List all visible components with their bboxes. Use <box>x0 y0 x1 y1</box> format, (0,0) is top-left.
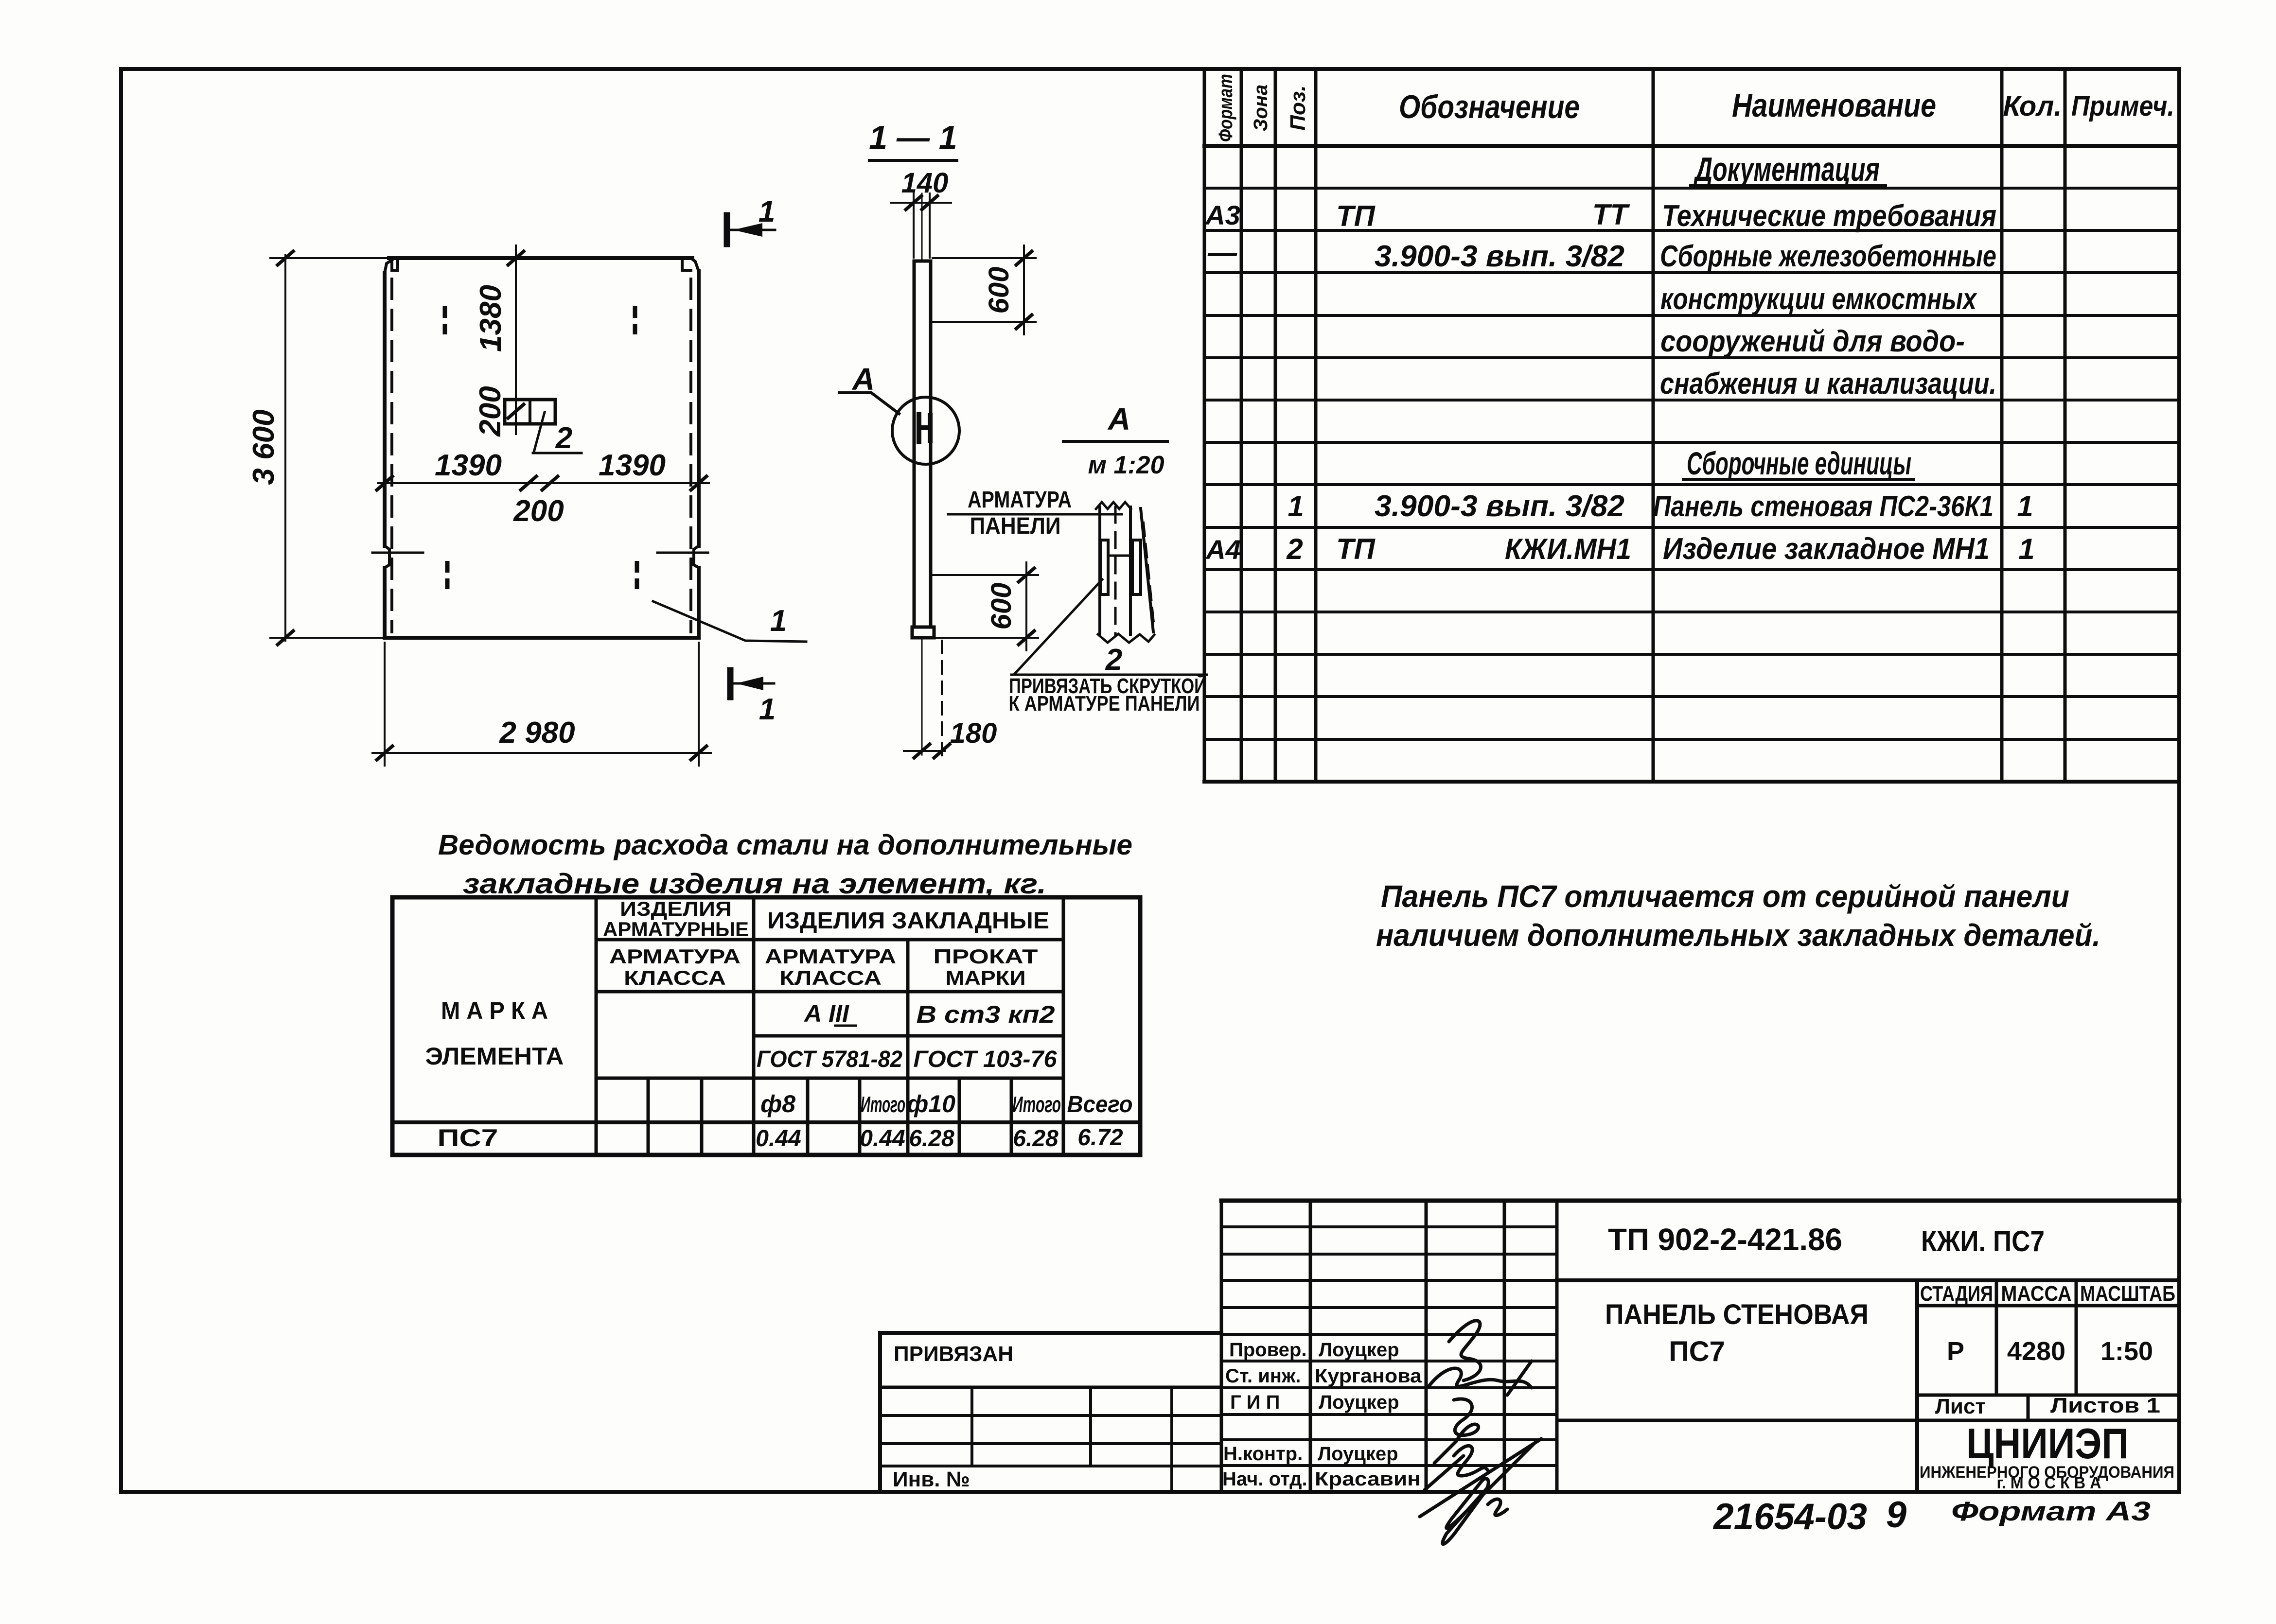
svg-text:ПАНЕЛИ: ПАНЕЛИ <box>970 513 1061 539</box>
svg-text:6.72: 6.72 <box>1077 1125 1123 1151</box>
dim 140 lines <box>891 193 951 258</box>
signature scribble 2 <box>1429 1361 1532 1395</box>
svg-text:ИЗДЕЛИЯ: ИЗДЕЛИЯ <box>620 897 732 920</box>
title block top border <box>1221 1199 2179 1203</box>
svg-text:ГОСТ 5781-82: ГОСТ 5781-82 <box>757 1047 902 1072</box>
underline Sborochnye edinicy <box>1683 478 1914 481</box>
dim 600 top lines <box>933 245 1036 334</box>
svg-text:АРМАТУРА: АРМАТУРА <box>968 487 1072 513</box>
svg-text:21654-03: 21654-03 <box>1712 1496 1867 1537</box>
svg-text:Лоуцкер: Лоуцкер <box>1319 1392 1399 1413</box>
svg-text:АРМАТУРА: АРМАТУРА <box>609 945 741 968</box>
detail A plate right <box>1132 540 1141 594</box>
zone grid rows <box>1221 1227 1557 1466</box>
border frame <box>121 69 2179 1492</box>
svg-text:Курганова: Курганова <box>1315 1365 1422 1387</box>
svg-text:2 980: 2 980 <box>499 716 575 750</box>
dim 600 bottom lines <box>933 562 1038 650</box>
svg-text:А: А <box>851 362 875 397</box>
svg-text:Ст. инж.: Ст. инж. <box>1225 1365 1301 1387</box>
svg-text:Изделие закладное МН1: Изделие закладное МН1 <box>1663 532 1990 566</box>
svg-text:м 1:20: м 1:20 <box>1088 451 1164 479</box>
svg-text:МАССА: МАССА <box>2001 1282 2072 1306</box>
svg-text:0.44: 0.44 <box>756 1126 801 1152</box>
svg-text:ЦНИИЭП: ЦНИИЭП <box>1966 1419 2129 1467</box>
specification table grid <box>1204 69 2065 782</box>
steel table main verticals <box>596 897 1063 1155</box>
svg-text:1: 1 <box>2018 533 2034 565</box>
rebar mark top-left <box>443 306 447 334</box>
svg-text:В ст3 кп2: В ст3 кп2 <box>917 1001 1055 1028</box>
dim ticks on center line <box>377 476 706 490</box>
svg-text:Зона: Зона <box>1250 85 1271 132</box>
svg-text:Итого: Итого <box>1012 1092 1061 1117</box>
svg-text:АРМАТУРА: АРМАТУРА <box>765 945 896 968</box>
panel right side notch <box>694 546 699 568</box>
panel dashed inner contour left <box>390 279 393 632</box>
svg-text:А: А <box>1107 402 1130 437</box>
right side notch tick <box>657 552 708 554</box>
steel table data row line <box>392 1120 1140 1124</box>
svg-text:200: 200 <box>474 386 507 437</box>
svg-text:Технические требования: Технические требования <box>1662 199 1996 233</box>
svg-text:Сборные железобетонные: Сборные железобетонные <box>1660 240 1996 273</box>
svg-text:снабжения и канализации.: снабжения и канализации. <box>1660 367 1996 401</box>
section bar center line <box>921 193 923 755</box>
svg-text:4280: 4280 <box>2007 1337 2065 1366</box>
zone grid verticals <box>1221 1201 1557 1492</box>
svg-text:3 600: 3 600 <box>247 409 281 485</box>
svg-text:Лист: Лист <box>1935 1395 1986 1418</box>
svg-text:Р: Р <box>1947 1337 1964 1366</box>
svg-text:ТП: ТП <box>1336 200 1376 232</box>
svg-text:Формат А3: Формат А3 <box>1951 1496 2151 1526</box>
left sub grid <box>880 1415 1221 1466</box>
section cut mark 1 top <box>724 215 730 244</box>
svg-text:М А Р К А: М А Р К А <box>441 997 548 1024</box>
steel table outer border <box>392 897 1140 1155</box>
left side notch tick <box>372 552 423 554</box>
svg-text:200: 200 <box>513 494 564 528</box>
svg-text:КЖИ. ПС7: КЖИ. ПС7 <box>1921 1225 2045 1257</box>
embedded item MN1 pos.2 <box>505 400 555 424</box>
svg-text:ф8: ф8 <box>760 1090 795 1118</box>
svg-text:1: 1 <box>759 195 775 228</box>
svg-text:Обозначение: Обозначение <box>1399 88 1580 125</box>
svg-text:ПС7: ПС7 <box>438 1124 498 1152</box>
privyazan box <box>880 1333 1221 1492</box>
panel top-right corner notch <box>682 258 699 271</box>
svg-text:ПРИВЯЗАН: ПРИВЯЗАН <box>894 1342 1013 1366</box>
section panel bar <box>914 261 931 627</box>
svg-text:1390: 1390 <box>435 449 502 482</box>
svg-text:Итого: Итого <box>861 1092 905 1117</box>
panel horizontal center line <box>378 482 709 484</box>
svg-text:140: 140 <box>901 167 949 199</box>
svg-text:ТП: ТП <box>1336 533 1376 565</box>
svg-text:Лоуцкер: Лоуцкер <box>1319 1339 1399 1361</box>
section title underline <box>869 159 957 162</box>
svg-text:1: 1 <box>759 693 776 726</box>
svg-text:6.28: 6.28 <box>909 1126 954 1152</box>
embedded item in section (H shape) <box>919 414 930 442</box>
rebar mark top-right <box>633 306 637 334</box>
detail A crossbar <box>1108 555 1132 557</box>
svg-text:ПС7: ПС7 <box>1669 1336 1725 1367</box>
svg-text:1: 1 <box>2017 490 2033 523</box>
section cut mark 1 bottom <box>727 670 734 697</box>
svg-text:0.44: 0.44 <box>860 1126 905 1152</box>
svg-text:600: 600 <box>983 267 1015 314</box>
svg-text:Панель стеновая ПС2-36К1: Панель стеновая ПС2-36К1 <box>1653 490 1994 523</box>
svg-text:МАСШТАБ: МАСШТАБ <box>2080 1282 2175 1306</box>
svg-text:ТП 902-2-421.86: ТП 902-2-421.86 <box>1608 1222 1842 1257</box>
svg-text:А4: А4 <box>1205 534 1241 565</box>
svg-text:1:50: 1:50 <box>2100 1337 2153 1366</box>
svg-text:КЛАССА: КЛАССА <box>624 966 726 989</box>
svg-text:—: — <box>1207 236 1237 269</box>
svg-text:Поз.: Поз. <box>1286 85 1310 130</box>
svg-text:2: 2 <box>1105 643 1122 677</box>
svg-text:1 — 1: 1 — 1 <box>869 119 957 156</box>
svg-text:1: 1 <box>770 604 787 638</box>
svg-text:КЛАССА: КЛАССА <box>779 966 882 989</box>
svg-text:Инв. №: Инв. № <box>893 1467 970 1491</box>
svg-text:Формат: Формат <box>1215 74 1236 142</box>
svg-text:Кол.: Кол. <box>2003 90 2062 122</box>
svg-text:Г И П: Г И П <box>1230 1392 1280 1413</box>
svg-text:Красавин: Красавин <box>1315 1468 1421 1490</box>
svg-text:180: 180 <box>950 717 997 749</box>
svg-text:К АРМАТУРЕ ПАНЕЛИ: К АРМАТУРЕ ПАНЕЛИ <box>1009 692 1200 716</box>
signature scribble 5 big <box>1420 1439 1541 1544</box>
signature scribble 4 <box>1425 1446 1488 1490</box>
svg-text:ЭЛЕМЕНТА: ЭЛЕМЕНТА <box>425 1043 564 1070</box>
svg-text:ИЗДЕЛИЯ ЗАКЛАДНЫЕ: ИЗДЕЛИЯ ЗАКЛАДНЫЕ <box>767 908 1049 934</box>
svg-text:сооружений для водо-: сооружений для водо- <box>1660 325 1965 358</box>
svg-text:Листов 1: Листов 1 <box>2050 1394 2160 1417</box>
svg-text:ПРОКАТ: ПРОКАТ <box>934 945 1038 968</box>
svg-text:ПАНЕЛЬ СТЕНОВАЯ: ПАНЕЛЬ СТЕНОВАЯ <box>1605 1299 1869 1330</box>
svg-text:закладные изделия на элемен: закладные изделия на элемент, кг. <box>463 868 1046 900</box>
svg-text:АРМАТУРНЫЕ: АРМАТУРНЫЕ <box>603 918 749 941</box>
svg-text:Н.контр.: Н.контр. <box>1223 1443 1303 1465</box>
svg-text:Всего: Всего <box>1067 1092 1133 1118</box>
detail A plate left <box>1100 540 1108 594</box>
svg-text:2: 2 <box>555 421 572 455</box>
underline AIII <box>835 1025 856 1027</box>
leader to privyazat note <box>1011 579 1207 675</box>
svg-text:Ведомость расхода стали на: Ведомость расхода стали на дополнительны… <box>438 829 1132 861</box>
dim 1380 line <box>515 245 517 434</box>
svg-text:А III: А III <box>803 1000 849 1027</box>
svg-text:СТАДИЯ: СТАДИЯ <box>1920 1282 1993 1306</box>
svg-text:Лоуцкер: Лоуцкер <box>1318 1443 1398 1465</box>
svg-text:ГОСТ 103-76: ГОСТ 103-76 <box>914 1047 1057 1072</box>
signature scribble 1 <box>1449 1321 1481 1380</box>
leader 1 from panel <box>653 601 806 642</box>
svg-text:3.900-3 вып. 3/82: 3.900-3 вып. 3/82 <box>1375 489 1624 523</box>
svg-text:9: 9 <box>1886 1494 1906 1536</box>
underline Dokumentaciya <box>1691 184 1886 187</box>
svg-text:1380: 1380 <box>474 285 508 352</box>
armatura paneli pointer line <box>948 513 1122 516</box>
panel dashed inner contour right <box>689 279 692 632</box>
panel left side notch <box>385 546 389 568</box>
svg-text:ф10: ф10 <box>907 1090 955 1118</box>
svg-text:г. М О С К В А: г. М О С К В А <box>1997 1474 2101 1492</box>
dim 180 lines <box>904 750 945 752</box>
detail A title underline <box>1063 440 1167 443</box>
svg-text:1390: 1390 <box>599 449 666 482</box>
leader to pos 2 <box>533 412 582 453</box>
wall panel PS7 plan view outline <box>385 258 699 638</box>
svg-text:А3: А3 <box>1204 200 1240 230</box>
svg-text:Наименование: Наименование <box>1732 87 1936 124</box>
svg-text:6.28: 6.28 <box>1013 1126 1059 1152</box>
dim 2980 lines <box>372 643 711 766</box>
detail A circle <box>892 397 959 464</box>
svg-text:МАРКИ: МАРКИ <box>946 966 1026 989</box>
svg-text:Сборочные единицы: Сборочные единицы <box>1687 445 1911 481</box>
steel table sub verticals <box>648 1078 1011 1155</box>
svg-text:ТТ: ТТ <box>1592 198 1630 231</box>
svg-text:Документация: Документация <box>1693 150 1880 188</box>
signature scribble 3 <box>1434 1399 1479 1463</box>
steel table horizontals <box>596 940 1063 1078</box>
detail A bars <box>1100 507 1130 634</box>
section bar foot <box>912 627 934 638</box>
svg-text:1: 1 <box>1288 490 1304 523</box>
svg-text:КЖИ.МН1: КЖИ.МН1 <box>1505 533 1631 565</box>
detail A break line top <box>1096 502 1131 509</box>
svg-text:Панель ПС7 отличается от с: Панель ПС7 отличается от серийной панели <box>1381 879 2069 914</box>
svg-text:Нач. отд.: Нач. отд. <box>1222 1468 1307 1490</box>
svg-text:конструкции емкостных: конструкции емкостных <box>1660 282 1977 316</box>
panel top-left corner notch <box>385 260 398 273</box>
rebar mark bottom-right <box>635 561 639 589</box>
svg-text:600: 600 <box>986 583 1017 630</box>
rebar mark bottom-left <box>445 561 450 589</box>
leader A <box>840 393 899 414</box>
title block main cells <box>1557 1278 2179 1282</box>
dim 3600 lines <box>270 255 387 641</box>
svg-text:Провер.: Провер. <box>1229 1339 1306 1361</box>
detail A break line bottom <box>1098 634 1154 643</box>
svg-text:2: 2 <box>1286 533 1303 565</box>
svg-text:наличием дополнительных зак: наличием дополнительных закладных детале… <box>1376 918 2100 953</box>
svg-text:Примеч.: Примеч. <box>2071 90 2174 122</box>
svg-text:3.900-3 вып. 3/82: 3.900-3 вып. 3/82 <box>1375 240 1624 273</box>
